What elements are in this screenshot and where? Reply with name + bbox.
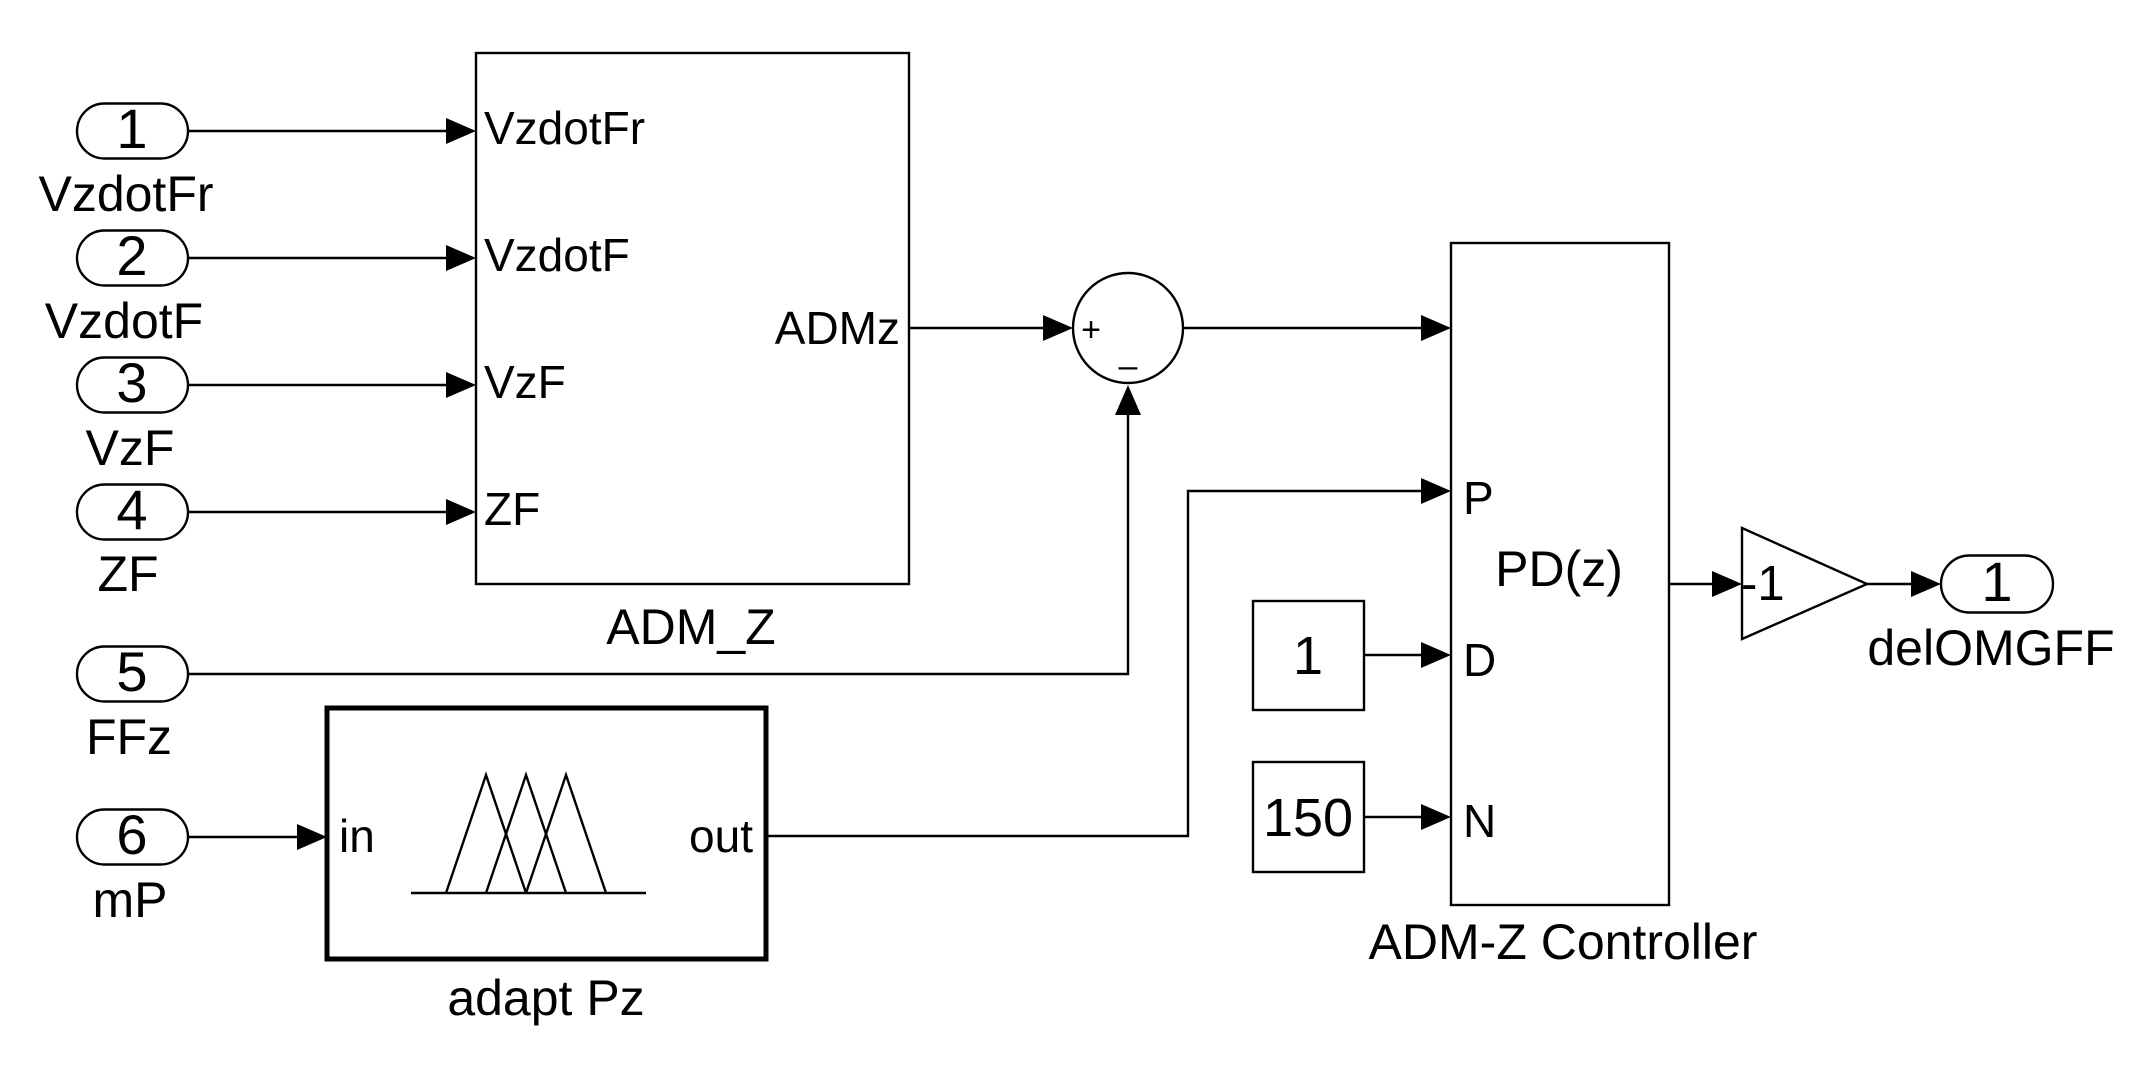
fuzzy block adapt Pz xyxy=(327,708,766,959)
membership triangle 2 xyxy=(486,775,566,893)
svg-text:PD(z): PD(z) xyxy=(1495,541,1623,597)
svg-text:VzdotFr: VzdotFr xyxy=(38,166,213,222)
wire port1 to ADM_Z xyxy=(188,118,476,144)
svg-text:-1: -1 xyxy=(1741,557,1785,611)
svg-text:delOMGFF: delOMGFF xyxy=(1867,620,2114,676)
svg-text:P: P xyxy=(1463,472,1494,524)
svg-text:–: – xyxy=(1119,347,1138,385)
svg-text:VzF: VzF xyxy=(86,420,175,476)
svg-text:D: D xyxy=(1463,634,1496,686)
svg-text:FFz: FFz xyxy=(86,709,172,765)
constant block 1 xyxy=(1253,601,1364,710)
wire constant 150 to N input xyxy=(1364,804,1451,830)
gain block -1 xyxy=(1741,528,1867,639)
membership triangle 1 xyxy=(446,775,526,893)
svg-text:ADM_Z: ADM_Z xyxy=(606,599,775,655)
controller block PD(z) xyxy=(1451,243,1669,905)
membership function baseline xyxy=(411,892,646,894)
svg-text:out: out xyxy=(689,810,753,862)
svg-text:VzdotF: VzdotF xyxy=(484,229,630,281)
svg-text:mP: mP xyxy=(93,872,168,928)
svg-text:ZF: ZF xyxy=(97,546,158,602)
inport 5 oval xyxy=(77,640,188,703)
svg-text:+: + xyxy=(1081,311,1101,349)
svg-text:1: 1 xyxy=(1981,550,2012,613)
sum junction xyxy=(1073,273,1183,385)
svg-text:1: 1 xyxy=(116,97,147,160)
svg-text:4: 4 xyxy=(116,478,147,541)
svg-text:ADMz: ADMz xyxy=(775,302,900,354)
membership triangle 3 xyxy=(526,775,606,893)
wire constant 1 to D input xyxy=(1364,642,1451,668)
subsystem block ADM_Z xyxy=(476,53,909,584)
wire port2 to ADM_Z xyxy=(188,245,476,271)
wire FFz to sum minus input xyxy=(188,385,1141,674)
svg-text:150: 150 xyxy=(1263,788,1353,848)
svg-text:adapt Pz: adapt Pz xyxy=(447,970,644,1026)
wire adapt Pz out to PD(z) P input xyxy=(766,478,1451,836)
inport 1 oval xyxy=(77,97,188,160)
svg-text:in: in xyxy=(339,810,375,862)
wire gain to outport xyxy=(1867,571,1941,597)
outport 1 oval xyxy=(1941,550,2053,613)
inport 4 oval xyxy=(77,478,188,541)
svg-text:VzdotFr: VzdotFr xyxy=(484,102,645,154)
wire mP to adapt Pz xyxy=(188,824,327,850)
svg-text:VzF: VzF xyxy=(484,356,566,408)
svg-text:VzdotF: VzdotF xyxy=(45,293,203,349)
svg-text:ADM-Z Controller: ADM-Z Controller xyxy=(1369,914,1758,970)
wire ADMz to sum xyxy=(909,315,1073,341)
inport 6 oval xyxy=(77,803,188,866)
svg-text:ZF: ZF xyxy=(484,483,540,535)
svg-text:N: N xyxy=(1463,795,1496,847)
inport 2 oval xyxy=(77,224,188,287)
svg-text:1: 1 xyxy=(1293,626,1323,686)
wire port4 to ADM_Z xyxy=(188,499,476,525)
wire sum to PD(z) xyxy=(1183,315,1451,341)
wire PD(z) to gain xyxy=(1669,571,1742,597)
wire port3 to ADM_Z xyxy=(188,372,476,398)
svg-text:6: 6 xyxy=(116,803,147,866)
svg-text:2: 2 xyxy=(116,224,147,287)
svg-text:5: 5 xyxy=(116,640,147,703)
inport 3 oval xyxy=(77,351,188,414)
constant block 150 xyxy=(1253,762,1364,872)
svg-text:3: 3 xyxy=(116,351,147,414)
